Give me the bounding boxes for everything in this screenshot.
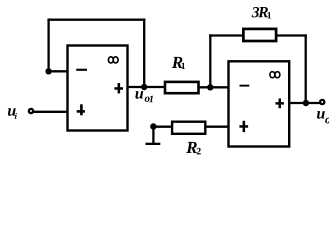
wire feedback U2 top horizontal	[209, 34, 243, 36]
op-amp U1 minus input sign	[76, 69, 87, 71]
wire feedback U1 left vertical	[47, 19, 49, 72]
wire feedback U2 left vertical	[209, 34, 211, 87]
wire U2 output	[290, 102, 320, 104]
label uo	[317, 111, 329, 123]
label R2	[186, 142, 201, 155]
op-amp U1 plus input sign	[77, 104, 85, 115]
op-amp U1 plus output sign	[114, 83, 123, 93]
label 3R1	[252, 7, 271, 18]
ground stem	[152, 127, 154, 144]
wire feedback U1 right vertical	[143, 19, 145, 87]
resistor R1	[165, 82, 199, 93]
wire node to U1 inverting input	[49, 70, 68, 72]
op-amp U1 body	[68, 46, 128, 131]
op-amp U1 infinity gain symbol	[108, 57, 118, 63]
label uo1	[135, 91, 152, 102]
ground bar	[146, 143, 161, 145]
resistor 3R1	[243, 29, 276, 41]
node uo output	[303, 100, 309, 106]
output terminal uo	[320, 100, 324, 104]
op-amp U2 plus output sign	[276, 99, 284, 109]
wire U1 output to R1	[129, 86, 166, 88]
wire feedback U2 right vertical	[305, 34, 307, 103]
node at U1 inverting input	[45, 68, 51, 74]
wire R1 to U2 inverting input	[198, 86, 229, 88]
node uo1	[141, 84, 147, 90]
resistor R2	[172, 122, 205, 134]
wire ground node to R2	[153, 126, 172, 128]
label ui	[8, 108, 17, 119]
wire feedback U1 top horizontal	[47, 19, 145, 21]
op-amp U2 plus input sign	[239, 121, 248, 132]
input terminal ui	[29, 109, 33, 113]
wire R2 to U2 non-inverting input	[205, 126, 229, 128]
node at U2 inverting input	[207, 84, 213, 90]
node at ground / R2	[150, 123, 156, 129]
wire ui terminal to U1 non-inverting input	[34, 111, 68, 113]
op-amp U2 body	[229, 61, 290, 146]
label R1	[172, 57, 185, 69]
wire 3R1 to output node horizontal	[276, 34, 307, 36]
op-amp U2 minus input sign	[240, 85, 250, 87]
op-amp U2 infinity gain symbol	[270, 72, 280, 78]
